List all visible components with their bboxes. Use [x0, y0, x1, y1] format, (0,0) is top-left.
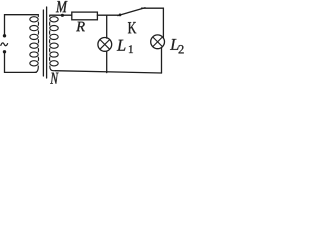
wire: primary top — [5, 15, 39, 35]
label L1 — [117, 40, 126, 51]
wire: L1 down to bottom bus — [106, 51, 108, 73]
switch K blade — [118, 8, 145, 16]
lamp L1 — [98, 38, 112, 52]
AC source ~ — [1, 43, 8, 46]
transformer core — [43, 7, 46, 78]
lamp L2 — [151, 35, 165, 49]
wire: branch down to L1 — [106, 15, 108, 38]
wire: R to switch — [97, 14, 118, 16]
node: source terminal bottom — [3, 50, 6, 53]
node: source terminal top — [3, 34, 6, 37]
wire: switch to top-right corner — [142, 8, 164, 38]
resistor R — [72, 12, 98, 20]
switch K hinge dot — [119, 14, 122, 17]
label R — [76, 22, 85, 31]
label N — [50, 73, 58, 84]
node M dot — [61, 14, 64, 17]
transformer primary coil — [30, 15, 39, 73]
wire: secondary top (M to R) — [50, 14, 72, 16]
wire: L2 down to bottom bus — [161, 48, 163, 73]
transformer secondary coil — [50, 15, 59, 70]
label M — [56, 1, 68, 12]
label L2 — [170, 39, 179, 50]
wire: primary bottom — [5, 53, 37, 72]
wire: bottom bus — [55, 71, 161, 73]
label K — [128, 22, 136, 33]
